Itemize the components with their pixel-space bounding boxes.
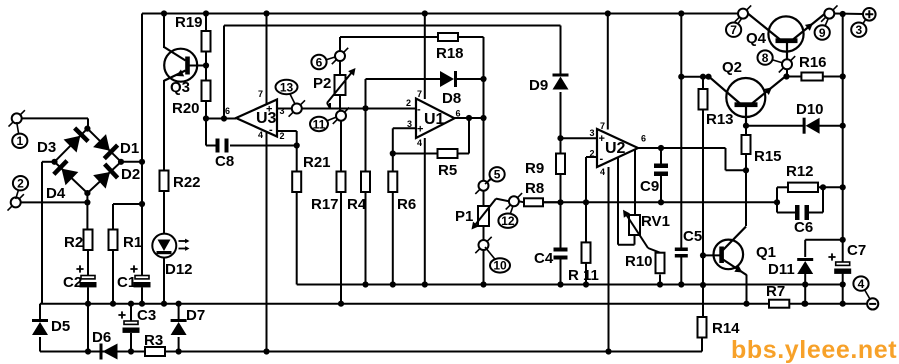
capacitor C4 xyxy=(534,248,568,268)
svg-text:R3: R3 xyxy=(144,332,163,349)
svg-text:C7: C7 xyxy=(847,242,866,259)
node D11 out xyxy=(840,237,846,243)
wire R20 bottom xyxy=(205,101,207,119)
wire C7 bottom xyxy=(842,273,844,284)
terminal 1 circle xyxy=(9,110,25,126)
svg-text:R15: R15 xyxy=(754,148,782,165)
node gnd D11 xyxy=(802,301,808,307)
node n285 R11 xyxy=(583,281,589,287)
wire R17 column xyxy=(340,121,342,172)
svg-text:R13: R13 xyxy=(706,111,734,128)
wire bridge bottom xyxy=(86,193,88,229)
resistor R22 xyxy=(160,171,201,192)
diode D11 xyxy=(768,258,813,278)
svg-text:R 11: R 11 xyxy=(568,267,599,284)
terminal 6 circle xyxy=(332,48,348,64)
node n285 C4 xyxy=(557,281,563,287)
wire C6 left xyxy=(777,202,797,212)
svg-text:R14: R14 xyxy=(712,320,740,337)
wire C1 bottom xyxy=(141,287,143,303)
svg-text:6: 6 xyxy=(641,134,646,144)
wire R5 right xyxy=(458,118,470,154)
wire R14 bottom xyxy=(701,337,703,352)
wire D10 right xyxy=(810,125,843,127)
wire U1 pin4 xyxy=(424,138,426,285)
wire minus link xyxy=(842,285,844,304)
node brail C2 xyxy=(85,348,91,354)
node brail U3pin4 xyxy=(263,348,269,354)
svg-text:R1: R1 xyxy=(123,234,142,251)
wire U3 pin3 to U1 pin2 xyxy=(277,108,416,110)
node U1 out xyxy=(466,115,472,121)
wire D11 bottom xyxy=(804,273,806,304)
svg-text:6: 6 xyxy=(456,109,461,119)
wire P2 body top xyxy=(339,61,341,75)
node t2 bridge xyxy=(84,199,90,205)
node Q2 base xyxy=(743,123,749,129)
svg-text:R21: R21 xyxy=(303,154,331,171)
resistor R17 xyxy=(311,172,346,214)
resistor R21 xyxy=(292,154,330,192)
node C9 top xyxy=(658,145,664,151)
wire D9 column xyxy=(560,26,562,76)
terminal 8 circle xyxy=(779,56,795,72)
node rail U3pin7 xyxy=(263,10,269,16)
wire Q3 collector xyxy=(163,14,165,49)
wire wiper P2 xyxy=(329,103,331,109)
wire term9 link xyxy=(834,13,863,16)
terminal 4 minus xyxy=(867,298,878,309)
resistor R18 xyxy=(436,33,464,62)
svg-text:5: 5 xyxy=(494,168,501,182)
node R12-C6 right xyxy=(820,184,826,190)
svg-text:R7: R7 xyxy=(766,283,785,300)
node rail U2pin7 xyxy=(605,10,611,16)
svg-text:C8: C8 xyxy=(215,153,234,170)
wire R2-C2 xyxy=(87,250,89,276)
wire D11 lead xyxy=(804,240,806,257)
wire RV1 pin5 xyxy=(634,150,636,216)
wire main plus column xyxy=(842,14,844,240)
node gnd C7 xyxy=(840,301,846,307)
svg-text:Q1: Q1 xyxy=(756,244,776,261)
svg-text:R16: R16 xyxy=(799,54,827,71)
wire R8 right xyxy=(543,201,561,203)
resistor R8 xyxy=(524,180,544,206)
svg-text:+: + xyxy=(266,104,272,116)
node rail R17 xyxy=(338,301,344,307)
wire R19-R20 xyxy=(205,52,207,81)
svg-text:R10: R10 xyxy=(625,253,653,270)
svg-text:R9: R9 xyxy=(525,160,544,177)
wire D12 top xyxy=(163,192,165,234)
label 1 xyxy=(12,122,27,148)
svg-text:10: 10 xyxy=(493,259,507,273)
node bridge top xyxy=(84,126,90,132)
svg-text:D11: D11 xyxy=(768,261,795,278)
wire D9 bottom xyxy=(560,92,562,154)
terminal 9 circle xyxy=(821,5,837,21)
node Q2-Q4 emitter xyxy=(783,73,789,79)
wire D8 right xyxy=(457,78,484,80)
svg-text:4: 4 xyxy=(600,167,605,177)
node R16 out xyxy=(840,73,846,79)
svg-text:2: 2 xyxy=(590,149,595,159)
node rail D12 xyxy=(161,301,167,307)
resistor R13 xyxy=(699,89,734,128)
wire R6 top xyxy=(392,128,394,171)
wire R21 bottom xyxy=(297,192,843,285)
wire C8 left xyxy=(206,119,217,146)
wire pin2 wire xyxy=(543,201,777,203)
label 5 xyxy=(485,167,505,184)
node n285 D11 xyxy=(802,281,808,287)
terminal 11 circle xyxy=(333,108,349,124)
svg-text:3: 3 xyxy=(855,23,862,37)
node t1 bend xyxy=(139,159,145,165)
wire D11 top xyxy=(805,239,843,241)
node bridge bottom xyxy=(84,190,90,196)
op-amp U1 xyxy=(406,89,461,148)
wire U3 out xyxy=(206,118,236,120)
wire C3 top xyxy=(130,304,132,321)
wire R11 bottom xyxy=(585,262,587,285)
svg-text:2: 2 xyxy=(17,177,24,191)
terminal 10 circle xyxy=(475,237,491,253)
node R1 tap xyxy=(139,201,145,207)
node rail C3 xyxy=(128,301,134,307)
svg-text:C2: C2 xyxy=(63,274,82,291)
diode D4 xyxy=(54,161,79,186)
wire C9 top xyxy=(660,148,662,164)
svg-text:-: - xyxy=(600,153,604,165)
label 8 xyxy=(758,50,784,65)
svg-text:C1: C1 xyxy=(117,274,136,291)
potentiometer RV1 xyxy=(623,210,670,248)
svg-text:D3: D3 xyxy=(37,139,56,156)
terminal 12 circle xyxy=(506,193,522,209)
node rail C2 xyxy=(85,301,91,307)
wire rail 2 xyxy=(224,25,561,27)
wire Q1 emitter v xyxy=(746,275,748,304)
wire ground rail xyxy=(40,303,873,305)
diode D9 xyxy=(529,74,569,95)
node D9-U2pin3 xyxy=(557,135,563,141)
capacitor C6 xyxy=(794,205,813,236)
node U1 out2 xyxy=(480,115,486,121)
node R15 bottom xyxy=(743,167,749,173)
node n285 R6 xyxy=(390,281,396,287)
label 6 xyxy=(311,55,335,70)
svg-text:R6: R6 xyxy=(397,196,416,213)
svg-text:C6: C6 xyxy=(794,219,813,236)
wire C5 column xyxy=(680,14,682,248)
wire U3 pin7 xyxy=(266,14,268,106)
svg-text:-: - xyxy=(269,124,273,136)
resistor R14 xyxy=(698,317,741,338)
svg-text:4: 4 xyxy=(858,277,865,291)
wire R10 bottom xyxy=(659,275,661,285)
resistor R7 xyxy=(766,283,789,308)
svg-text:P2: P2 xyxy=(313,75,331,92)
wire U3 output link xyxy=(223,26,225,119)
svg-text:2: 2 xyxy=(406,98,411,108)
wire Q1 base xyxy=(703,254,721,256)
node Q3 base xyxy=(203,62,209,68)
node rail C5col xyxy=(678,10,684,16)
resistor R2 xyxy=(64,230,93,252)
svg-text:D2: D2 xyxy=(121,166,140,183)
svg-text:C9: C9 xyxy=(640,178,659,195)
diode D10 xyxy=(796,101,824,134)
node n285 C7 xyxy=(840,281,846,287)
node rail R1 xyxy=(110,301,116,307)
wire D5 top xyxy=(39,304,41,319)
node gnd Q1e xyxy=(743,301,749,307)
wire U1 pin3 xyxy=(393,127,416,129)
svg-text:D10: D10 xyxy=(796,101,824,118)
svg-text:4: 4 xyxy=(417,138,422,148)
node U3 out xyxy=(203,115,209,121)
wire bridge plus column xyxy=(141,14,143,276)
svg-text:6: 6 xyxy=(316,55,323,69)
node rail C1 xyxy=(139,301,145,307)
diode D8 xyxy=(440,71,461,107)
capacitor C9 xyxy=(640,164,668,196)
svg-text:7: 7 xyxy=(730,23,737,37)
wire D10 left xyxy=(746,125,806,127)
transistor Q3 xyxy=(164,47,197,96)
resistor R1 xyxy=(109,230,143,252)
svg-text:U2: U2 xyxy=(605,140,626,157)
svg-text:9: 9 xyxy=(819,26,826,40)
wire U3 pin2 xyxy=(277,131,297,172)
diode D7 xyxy=(171,307,206,335)
svg-text:2: 2 xyxy=(280,131,285,141)
node C8-R21 xyxy=(294,142,300,148)
op-amp U3 xyxy=(225,89,285,141)
wire D12 bottom xyxy=(163,258,165,304)
wire U2 out xyxy=(638,148,746,170)
terminal 13 circle xyxy=(289,100,305,116)
node brail U2pin4 xyxy=(605,348,611,354)
diode D5 xyxy=(32,318,70,335)
potentiometer P1 xyxy=(455,199,496,230)
wire P1 wiper link xyxy=(496,199,509,202)
wire U2 pin4 xyxy=(608,167,610,352)
wire P2 top xyxy=(340,37,438,51)
svg-text:12: 12 xyxy=(501,214,515,228)
capacitor C1 xyxy=(117,265,151,291)
svg-text:11: 11 xyxy=(313,117,326,131)
terminal 7 circle xyxy=(735,5,751,21)
node rail U1pin7 xyxy=(422,10,428,16)
wire D7 bottom xyxy=(178,337,180,352)
svg-text:R12: R12 xyxy=(786,163,814,180)
svg-text:D6: D6 xyxy=(92,329,111,346)
node bridge left xyxy=(51,159,57,165)
svg-text:P1: P1 xyxy=(455,208,473,225)
svg-text:Q3: Q3 xyxy=(170,79,190,96)
svg-text:RV1: RV1 xyxy=(641,213,670,230)
svg-text:Q2: Q2 xyxy=(722,59,742,76)
label 7 xyxy=(726,18,742,37)
node n285 C5 xyxy=(678,281,684,287)
resistor R5 xyxy=(438,149,458,179)
svg-text:1: 1 xyxy=(16,134,23,148)
svg-text:D5: D5 xyxy=(51,318,70,335)
wire Q1 collector v xyxy=(745,170,747,226)
wire R17 bottom xyxy=(340,192,342,304)
node n285 R10 xyxy=(657,281,663,287)
wire term10 bottom xyxy=(483,250,485,285)
svg-text:R4: R4 xyxy=(347,196,367,213)
node R8-R9 xyxy=(557,199,563,205)
label 13 xyxy=(276,80,298,104)
svg-text:+: + xyxy=(599,133,605,145)
wire R1 bottom xyxy=(112,250,114,304)
svg-text:D4: D4 xyxy=(46,185,66,202)
svg-text:-: - xyxy=(417,104,421,116)
capacitor C2 xyxy=(63,265,97,291)
wire U1 out xyxy=(455,117,484,119)
node n285 R4 xyxy=(362,281,368,287)
wire RV1 wiper-R10 xyxy=(648,248,660,253)
node U2pin2 tap xyxy=(583,199,589,205)
wire P1 top xyxy=(483,191,485,206)
resistor R19 xyxy=(175,14,211,52)
terminal 5 circle xyxy=(475,178,491,194)
wire Q2 collector wire xyxy=(681,76,709,78)
resistor R16 xyxy=(799,54,827,81)
label 2 xyxy=(13,176,28,199)
node D10 out xyxy=(840,123,846,129)
node brail C3 xyxy=(128,348,134,354)
svg-text:C4: C4 xyxy=(534,250,554,267)
resistor R4 xyxy=(347,172,370,214)
wire D5 bottom xyxy=(39,337,41,352)
svg-text:13: 13 xyxy=(280,80,294,94)
wire bridge left xyxy=(42,162,55,304)
wire bottom rail xyxy=(40,351,702,353)
transistor Q1 xyxy=(714,227,777,276)
wire C3 bottom xyxy=(130,333,132,352)
wire U2 pin2 xyxy=(586,157,597,242)
wire P1 bottom xyxy=(483,226,485,240)
op-amp U2 xyxy=(590,121,647,177)
wire terminal2 xyxy=(21,201,88,203)
node rail out xyxy=(840,11,846,17)
wire R1 top xyxy=(113,204,142,230)
wire C8 right xyxy=(230,145,297,147)
potentiometer P2 xyxy=(313,68,356,108)
node U3 link xyxy=(221,115,227,121)
label 4 xyxy=(853,276,870,300)
capacitor C3 xyxy=(118,307,156,333)
node gnd R7right xyxy=(801,301,807,307)
svg-text:D1: D1 xyxy=(120,140,139,157)
wire P2 body bottom xyxy=(339,95,341,111)
node n285 U1pin4 xyxy=(422,281,428,287)
svg-text:C5: C5 xyxy=(683,228,702,245)
label 11 xyxy=(310,117,337,132)
wire R12 right xyxy=(818,186,843,188)
svg-text:D12: D12 xyxy=(165,261,193,278)
node bridge right xyxy=(118,159,124,165)
terminal 2 circle xyxy=(8,194,24,210)
svg-text:D7: D7 xyxy=(186,307,205,324)
label 9 xyxy=(815,18,830,40)
node C9 bottom xyxy=(658,199,664,205)
wire bridge right xyxy=(121,161,142,163)
node R12-C6 left xyxy=(774,199,780,205)
svg-text:bbs.yleee.net: bbs.yleee.net xyxy=(731,336,897,364)
node Q2 coll bend xyxy=(705,74,711,80)
svg-text:R22: R22 xyxy=(173,174,201,191)
node rail R19 xyxy=(203,10,209,16)
wire C2 rail link xyxy=(87,304,89,352)
resistor R20 xyxy=(172,81,211,118)
wire R18 right xyxy=(458,37,484,181)
wire C7 top xyxy=(842,240,844,262)
node bridge diamond xyxy=(55,129,122,194)
svg-text:R17: R17 xyxy=(311,196,339,213)
node pin3-R5 xyxy=(390,150,396,156)
svg-text:Q4: Q4 xyxy=(746,30,767,47)
svg-text:6: 6 xyxy=(225,106,230,116)
resistor R9 xyxy=(525,154,565,178)
svg-text:3: 3 xyxy=(280,106,285,116)
wire R19 lead xyxy=(205,14,207,32)
svg-text:4: 4 xyxy=(258,130,263,140)
node brail D7 xyxy=(176,348,182,354)
node n285 R13 xyxy=(700,282,706,288)
transistor Q4 xyxy=(746,14,825,60)
svg-text:D9: D9 xyxy=(529,77,548,94)
label 10 xyxy=(485,247,510,273)
node pin2-R4 xyxy=(362,105,368,111)
resistor R10 xyxy=(625,253,665,274)
wire D8 left xyxy=(366,79,443,108)
wire C4 bottom xyxy=(560,260,562,285)
terminal 3 plus xyxy=(863,8,876,21)
wire C5 bottom xyxy=(680,258,682,285)
diode D6 xyxy=(92,329,118,360)
node rail D7 xyxy=(176,301,182,307)
svg-text:3: 3 xyxy=(590,128,595,138)
wire RV1 pin1 xyxy=(618,158,635,245)
wire R9-C4 xyxy=(560,175,562,248)
wire Q3 base xyxy=(188,65,206,67)
node R12 out xyxy=(840,184,846,190)
capacitor C5 xyxy=(675,228,702,258)
resistor R15 xyxy=(742,135,782,165)
svg-text:R20: R20 xyxy=(172,100,200,117)
diode D1 xyxy=(93,134,118,159)
svg-text:C3: C3 xyxy=(137,307,156,324)
resistor R3 xyxy=(144,332,165,356)
node R13 tap xyxy=(700,74,706,80)
svg-text:R19: R19 xyxy=(175,14,203,31)
wire U2 pin7 xyxy=(607,14,609,130)
label 12 xyxy=(498,206,517,228)
transistor Q2 xyxy=(709,59,787,126)
wire C6 right xyxy=(806,187,823,212)
wire U3 pin4 xyxy=(266,131,268,352)
svg-text:U1: U1 xyxy=(424,111,445,128)
wire R16 left xyxy=(787,76,802,78)
resistor R6 xyxy=(388,172,416,214)
